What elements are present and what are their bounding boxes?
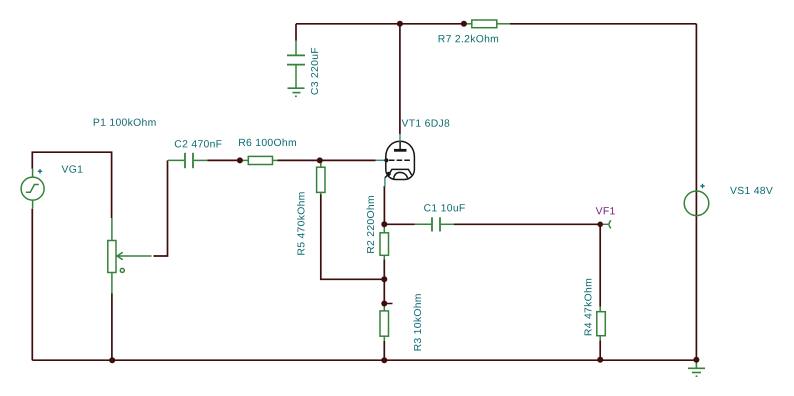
wire C1 to VF1 node xyxy=(454,223,600,225)
wire C3 drop xyxy=(295,24,297,41)
node R2 / R5 xyxy=(381,276,387,282)
svg-text:C2 470nF: C2 470nF xyxy=(174,139,222,150)
triode VT1 xyxy=(385,141,415,179)
svg-text:R7 2.2kOhm: R7 2.2kOhm xyxy=(438,34,499,45)
resistor R3 xyxy=(380,304,389,342)
node cathode / R2 / C1 xyxy=(381,221,387,227)
plus sign VS1 xyxy=(700,184,704,188)
voltage generator VG1 xyxy=(21,169,44,209)
anode pin stub xyxy=(399,134,401,142)
wire R6 to grid xyxy=(278,159,376,161)
wire anode drop xyxy=(399,24,401,134)
ground bottom right xyxy=(688,360,705,376)
wire R4 bottom xyxy=(599,341,601,360)
cathode pin dot xyxy=(387,172,391,176)
wire wiper to C2 xyxy=(154,160,168,256)
node P1 / bottom rail xyxy=(109,357,115,363)
anode bar xyxy=(394,149,407,152)
node top rail / R7 xyxy=(461,21,467,27)
wire R3 bottom xyxy=(383,341,385,360)
probe VF1 xyxy=(603,220,611,228)
wire R2 bottom xyxy=(383,260,385,304)
wire cathode to node xyxy=(383,186,385,224)
node bottom rail / VS1 / ground xyxy=(693,357,699,363)
svg-text:R3 10kOhm: R3 10kOhm xyxy=(413,293,424,351)
resistor R7 xyxy=(467,20,511,28)
svg-text:R6 100Ohm: R6 100Ohm xyxy=(238,138,297,149)
resistor R4 xyxy=(597,307,606,341)
svg-text:VT1 6DJ8: VT1 6DJ8 xyxy=(401,119,450,130)
wire bottom rail xyxy=(32,359,696,361)
resistor R2 xyxy=(380,224,389,259)
svg-text:VS1 48V: VS1 48V xyxy=(730,186,773,197)
svg-text:VF1: VF1 xyxy=(596,206,616,217)
svg-text:P1 100kOhm: P1 100kOhm xyxy=(93,118,157,129)
potentiometer P1 xyxy=(108,218,152,294)
wire P1 bottom xyxy=(111,294,113,361)
node R6 / R5 / grid xyxy=(317,157,323,163)
node R3 / bottom rail xyxy=(381,357,387,363)
node C1 / VF1 / R4 xyxy=(597,222,603,228)
plus sign VG1 xyxy=(38,169,42,173)
anode lead inside xyxy=(399,142,401,150)
wire R5 bottom to R2 node xyxy=(321,194,385,279)
node R3 top xyxy=(381,301,387,307)
wire VG1 top xyxy=(32,152,111,218)
svg-text:R5 470kOhm: R5 470kOhm xyxy=(296,191,307,255)
wire R4 top xyxy=(599,224,601,306)
cathode lead diagonal xyxy=(385,174,389,178)
ground under C3 xyxy=(288,88,305,96)
wire node to C1 xyxy=(384,223,414,225)
node R4 / bottom rail xyxy=(597,357,603,363)
svg-text:R2 220Ohm: R2 220Ohm xyxy=(366,195,377,254)
heater dome xyxy=(394,172,408,178)
svg-text:C1 10uF: C1 10uF xyxy=(424,203,466,214)
svg-text:C3 220uF: C3 220uF xyxy=(310,47,321,95)
node top rail / anode xyxy=(397,21,403,27)
capacitor C3 xyxy=(287,41,305,89)
wire C2 to R6 xyxy=(208,159,241,161)
svg-text:VG1: VG1 xyxy=(61,165,83,176)
svg-text:R4 47kOhm: R4 47kOhm xyxy=(584,278,595,336)
envelope xyxy=(386,141,415,179)
capacitor C1 xyxy=(415,217,455,231)
wire stub at R3 top node xyxy=(384,303,392,305)
wire top rail left segment xyxy=(296,23,467,25)
capacitor C2 xyxy=(168,153,208,168)
resistor R5 xyxy=(317,160,325,194)
cathode pin stub xyxy=(384,178,386,187)
grid pin dot xyxy=(384,158,388,162)
wire top rail right segment xyxy=(510,23,696,25)
cathode xyxy=(389,169,412,175)
grid dashes xyxy=(389,159,410,161)
wire VS1 vertical xyxy=(695,24,697,360)
resistor R6 xyxy=(240,156,278,164)
voltage source VS1 xyxy=(684,191,709,216)
grid pin stub xyxy=(376,159,387,161)
wire VG1 bottom xyxy=(31,209,33,361)
node C2 / R6 xyxy=(237,157,243,163)
